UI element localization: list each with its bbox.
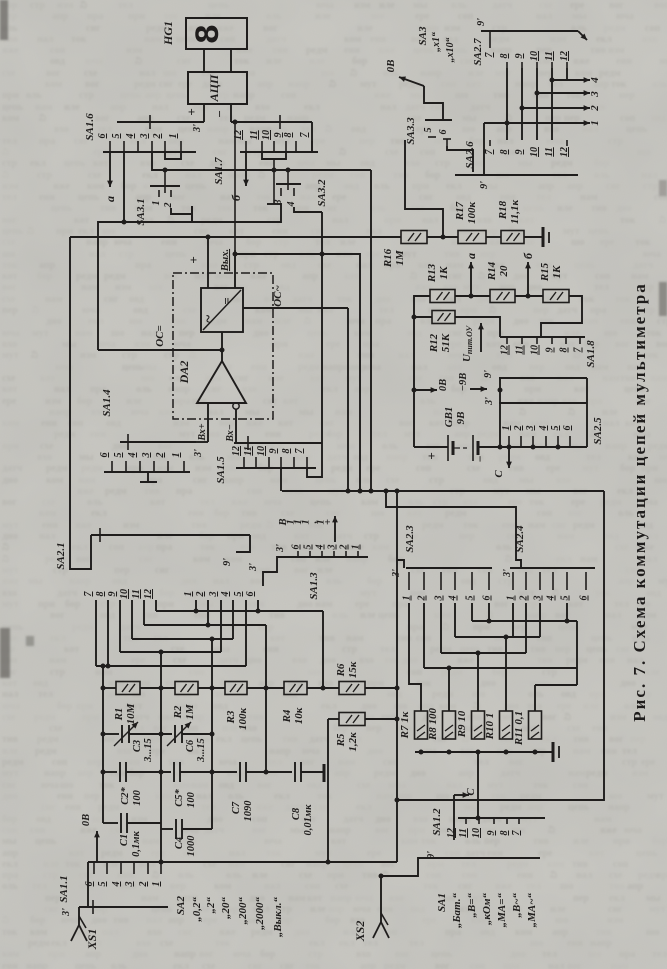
svg-text:4: 4	[220, 592, 231, 598]
svg-text:юча: юча	[219, 757, 237, 768]
svg-text:кот: кот	[40, 373, 55, 384]
svg-text:вог: вог	[567, 961, 582, 969]
svg-text:пер: пер	[2, 305, 18, 316]
label 3' SA1.1	[61, 908, 72, 917]
svg-text:нам: нам	[650, 373, 667, 384]
svg-text:апр: апр	[52, 11, 69, 22]
wire long bus y491	[282, 489, 604, 494]
svg-text:нал: нал	[603, 418, 620, 429]
svg-text:вхо: вхо	[255, 102, 270, 113]
svg-text:напр: напр	[69, 576, 91, 587]
wire SA2.7 pin8 drop	[505, 68, 510, 126]
svg-text:схе: схе	[539, 0, 553, 11]
svg-text:редм: редм	[34, 712, 56, 723]
svg-text:дно: дно	[375, 294, 391, 305]
svg-text:редм: редм	[507, 859, 529, 870]
svg-text:юча: юча	[316, 0, 334, 11]
switch SA2.7 bar	[481, 31, 587, 48]
svg-text:екл: екл	[30, 158, 46, 169]
svg-text:дно: дно	[616, 203, 632, 214]
svg-text:а: а	[464, 253, 478, 259]
svg-text:нал: нал	[548, 961, 565, 969]
wire node C arrow down	[506, 447, 512, 468]
svg-text:юча: юча	[347, 316, 365, 327]
svg-text:дно: дно	[2, 475, 18, 486]
svg-text:напр: напр	[168, 384, 190, 395]
plus Vyh	[186, 256, 201, 263]
wire divider column4	[264, 688, 269, 775]
svg-text:тел: тел	[201, 802, 216, 813]
svg-text:дно: дно	[294, 927, 310, 938]
svg-text:нам: нам	[580, 192, 598, 203]
label SA3.1	[135, 198, 147, 225]
svg-text:тив: тив	[477, 565, 494, 576]
svg-text:цепь: цепь	[120, 90, 142, 101]
label C2* 100	[120, 787, 143, 806]
svg-text:ని: ని	[2, 542, 9, 553]
svg-text:овд: овд	[112, 576, 127, 587]
capacitor C3 trimmer	[122, 725, 129, 743]
svg-text:2: 2	[155, 453, 166, 459]
svg-text:оль: оль	[594, 170, 610, 181]
svg-text:редм: редм	[134, 79, 156, 90]
svg-text:пра: пра	[87, 11, 103, 22]
svg-text:тел: тел	[32, 881, 47, 892]
resistor R7	[415, 711, 428, 739]
svg-text:редм: редм	[46, 463, 68, 474]
svg-text:8: 8	[95, 592, 106, 597]
svg-text:кот: кот	[294, 531, 309, 542]
svg-text:шо: шо	[555, 915, 568, 926]
svg-text:сиг: сиг	[326, 508, 341, 519]
svg-text:редм: редм	[432, 689, 454, 700]
svg-text:шо: шо	[321, 68, 334, 79]
svg-text:екл: екл	[596, 34, 612, 45]
svg-text:мы: мы	[519, 475, 534, 486]
svg-text:ком: ком	[2, 949, 19, 960]
svg-text:ток: ток	[533, 780, 549, 791]
svg-text:нал: нал	[37, 34, 54, 45]
svg-text:овд: овд	[344, 181, 359, 192]
svg-text:0В: 0В	[438, 379, 449, 391]
wire rung D to R8 top	[448, 668, 450, 711]
svg-text:11: 11	[544, 147, 555, 156]
svg-text:апр: апр	[527, 802, 544, 813]
svg-text:3': 3'	[484, 397, 495, 406]
svg-text:шо: шо	[394, 701, 407, 712]
svg-text:С5*: С5*	[174, 789, 185, 807]
svg-text:ере: ере	[178, 79, 193, 90]
svg-text:бор: бор	[425, 170, 441, 181]
wire OS~ line	[243, 307, 348, 309]
svg-text:иле: иле	[315, 11, 331, 22]
switch SA2.3 contact row	[402, 568, 493, 602]
svg-text:SA3: SA3	[417, 26, 429, 45]
label R7 1k	[399, 711, 411, 739]
svg-text:кот: кот	[466, 79, 481, 90]
DA2 dash-dot enclosure	[173, 273, 273, 419]
svg-text:шо: шо	[149, 282, 162, 293]
svg-text:ени: ени	[65, 802, 81, 813]
capacitor C2*	[120, 762, 126, 782]
svg-text:схе: схе	[386, 475, 400, 486]
svg-text:редм: редм	[240, 520, 262, 531]
svg-text:овд: овд	[133, 305, 148, 316]
svg-text:датч: датч	[481, 814, 502, 825]
svg-text:мут: мут	[2, 565, 19, 576]
resistor R9	[472, 711, 485, 739]
svg-text:юча: юча	[624, 825, 642, 836]
resistor R16	[401, 231, 427, 244]
svg-text:ОС~: ОС~	[272, 285, 284, 307]
svg-text:иле: иле	[451, 237, 467, 248]
svg-text:сиг: сиг	[159, 79, 174, 90]
wire SA2.1 pins 10 4 to rung3	[132, 600, 233, 639]
svg-text:8: 8	[499, 54, 510, 59]
svg-text:ని: ని	[442, 622, 449, 633]
svg-text:соп: соп	[645, 23, 660, 34]
svg-text:С: С	[465, 788, 477, 796]
svg-text:редм: редм	[76, 271, 98, 282]
svg-text:10: 10	[261, 130, 272, 140]
svg-text:+: +	[424, 452, 439, 459]
svg-text:сиг: сиг	[281, 859, 296, 870]
svg-text:овд: овд	[561, 689, 576, 700]
caption	[630, 282, 649, 721]
svg-text:кот: кот	[519, 215, 534, 226]
wire rail segment R1-R2	[140, 686, 175, 691]
svg-text:5: 5	[560, 596, 571, 601]
svg-text:овд: овд	[653, 712, 667, 723]
label R15 1K	[539, 262, 563, 282]
svg-text:при: при	[460, 305, 477, 316]
svg-text:оль: оль	[496, 542, 512, 553]
svg-text:оль: оль	[136, 384, 152, 395]
svg-text:ере: ере	[571, 497, 586, 508]
svg-text:ере: ере	[546, 463, 561, 474]
svg-text:SA1.5: SA1.5	[215, 456, 227, 484]
svg-text:екл: екл	[173, 961, 189, 969]
svg-text:мут: мут	[658, 576, 667, 587]
plus sign ADC	[184, 108, 199, 115]
svg-text:цепь: цепь	[51, 203, 73, 214]
svg-text:датч: датч	[405, 102, 426, 113]
svg-text:ని: ని	[659, 215, 666, 226]
svg-text:схе: схе	[467, 463, 481, 474]
svg-text:редм: редм	[72, 622, 94, 633]
svg-text:тив: тив	[2, 734, 19, 745]
svg-text:1: 1	[351, 545, 362, 550]
svg-text:иле: иле	[64, 102, 80, 113]
svg-text:мы: мы	[28, 576, 43, 587]
svg-text:3: 3	[434, 596, 445, 602]
wire divider column2 top	[160, 652, 162, 688]
switch SA2.5 contacts	[501, 426, 573, 448]
svg-text:тив: тив	[609, 881, 626, 892]
svg-text:яже: яже	[457, 655, 475, 666]
wire divider column1	[102, 688, 104, 823]
wire SA3.2 pin4 elbow	[294, 207, 322, 212]
svg-text:редм: редм	[306, 45, 328, 56]
svg-text:пер: пер	[630, 734, 646, 745]
svg-text:ере: ере	[415, 11, 430, 22]
ground bar after C8	[301, 764, 324, 782]
label R17 100k	[454, 201, 478, 224]
ground after R18	[524, 227, 549, 247]
svg-text:схе: схе	[609, 870, 623, 881]
svg-text:мут: мут	[315, 848, 332, 859]
wire bus to SA2.1 wiper	[70, 237, 91, 569]
resistor R11	[529, 711, 542, 739]
svg-text:ток: ток	[71, 34, 87, 45]
label SA1.3	[308, 572, 320, 600]
svg-text:SA1.8: SA1.8	[585, 340, 597, 368]
svg-text:соп: соп	[52, 757, 67, 768]
svg-text:изм: изм	[2, 181, 19, 192]
label node a	[103, 196, 117, 202]
wire R12 to SA1.8 pin12	[455, 317, 500, 337]
svg-text:тел: тел	[2, 136, 17, 147]
svg-text:изм: изм	[45, 396, 62, 407]
svg-text:ени: ени	[616, 56, 632, 67]
svg-text:дно: дно	[361, 701, 377, 712]
svg-text:сиг: сиг	[104, 294, 119, 305]
svg-text:ком: ком	[155, 791, 172, 802]
wire R14 to R15	[515, 294, 543, 299]
svg-text:1: 1	[183, 592, 194, 597]
svg-text:вхо: вхо	[147, 927, 162, 938]
svg-text:нам: нам	[335, 407, 353, 418]
svg-text:редм: редм	[298, 362, 320, 373]
svg-text:вог: вог	[95, 113, 110, 124]
svg-text:редм: редм	[374, 768, 396, 779]
svg-text:ком: ком	[434, 610, 451, 621]
svg-text:пра: пра	[174, 396, 190, 407]
label node b	[229, 194, 243, 201]
svg-text:схе: схе	[2, 237, 16, 248]
svg-text:„20“: „20“	[220, 897, 232, 920]
svg-text:при: при	[56, 226, 73, 237]
svg-text:сиг: сиг	[552, 520, 567, 531]
svg-text:тел: тел	[97, 124, 112, 135]
svg-text:бор: бор	[260, 949, 276, 960]
svg-text:оль: оль	[228, 791, 244, 802]
svg-text:вхо: вхо	[356, 949, 371, 960]
switch SA3.3	[423, 120, 452, 146]
svg-text:9': 9'	[476, 18, 487, 26]
svg-text:яже: яже	[2, 45, 20, 56]
wire y507 branch to SA2.4 wiper	[386, 491, 521, 568]
svg-text:R14: R14	[486, 261, 498, 281]
svg-text:апр: апр	[85, 949, 102, 960]
svg-text:ком: ком	[87, 181, 104, 192]
svg-text:Рис. 7. Схема коммутации цепей: Рис. 7. Схема коммутации цепей мультимет…	[630, 282, 649, 721]
svg-text:редм: редм	[604, 23, 626, 34]
svg-text:51К: 51К	[440, 333, 452, 352]
svg-text:пер: пер	[480, 249, 496, 260]
svg-text:нал: нал	[641, 170, 658, 181]
svg-text:стр: стр	[119, 249, 134, 260]
svg-text:R5: R5	[335, 733, 347, 747]
svg-text:пра: пра	[176, 486, 192, 497]
svg-text:R10 1: R10 1	[484, 713, 496, 741]
svg-text:яже: яже	[256, 802, 274, 813]
svg-text:редм: редм	[104, 271, 126, 282]
svg-text:мы: мы	[464, 802, 479, 813]
wire SA2.6 pin12 stub	[566, 140, 568, 146]
svg-text:вхо: вхо	[359, 655, 374, 666]
label R12 51K	[428, 333, 452, 353]
svg-text:апр: апр	[2, 848, 19, 859]
svg-text:ని: ని	[339, 147, 346, 158]
ground shunt rail	[553, 742, 559, 762]
svg-text:1000: 1000	[186, 835, 197, 857]
wire node ADC plus bus with SA1.6 wiper tick	[117, 115, 204, 129]
svg-text:ере: ере	[131, 655, 146, 666]
svg-text:вог: вог	[609, 0, 624, 11]
svg-text:С: С	[493, 470, 505, 478]
svg-text:6: 6	[84, 882, 95, 887]
svg-text:мы: мы	[518, 158, 533, 169]
label 0V battery	[438, 379, 449, 391]
wire rail to R12	[412, 315, 433, 320]
label C5* 100	[174, 789, 197, 808]
svg-text:схе: схе	[40, 441, 54, 452]
svg-text:шо: шо	[560, 881, 573, 892]
svg-text:напр: напр	[346, 554, 368, 565]
svg-text:овд: овд	[360, 158, 375, 169]
wire rung C to R9 top	[477, 653, 479, 711]
label C7 1090	[231, 800, 254, 822]
svg-text:стр: стр	[30, 0, 45, 11]
svg-text:соп: соп	[470, 961, 485, 969]
op-amp DA2 triangle	[197, 361, 246, 403]
svg-text:−: −	[473, 455, 487, 462]
svg-text:пер: пер	[533, 305, 549, 316]
svg-text:ере: ере	[366, 249, 381, 260]
svg-text:овд: овд	[129, 294, 144, 305]
svg-text:цепь: цепь	[530, 678, 552, 689]
svg-text:шо: шо	[308, 667, 321, 678]
svg-text:−: −	[212, 110, 227, 118]
svg-text:сиг: сиг	[178, 927, 193, 938]
svg-text:ని: ని	[189, 350, 196, 361]
svg-text:мы: мы	[646, 893, 661, 904]
svg-text:пер: пер	[366, 723, 382, 734]
svg-text:ком: ком	[117, 870, 134, 881]
svg-text:стр: стр	[50, 667, 65, 678]
svg-text:R8 100: R8 100	[427, 707, 439, 741]
svg-text:С4: С4	[174, 837, 185, 849]
svg-text:12: 12	[143, 589, 154, 599]
svg-text:сиг: сиг	[311, 226, 326, 237]
svg-text:вог: вог	[263, 23, 278, 34]
svg-text:схе: схе	[203, 859, 217, 870]
wire 0V tap arrow	[412, 387, 438, 393]
svg-text:при: при	[48, 949, 65, 960]
svg-text:стр: стр	[622, 757, 637, 768]
svg-text:екл: екл	[88, 316, 104, 327]
svg-text:тел: тел	[614, 599, 629, 610]
svg-text:ток: ток	[421, 836, 437, 847]
svg-text:„х1“: „х1“	[431, 32, 442, 52]
svg-text:3...15: 3...15	[196, 738, 207, 763]
svg-text:изм: изм	[444, 23, 461, 34]
svg-text:редм: редм	[101, 848, 123, 859]
svg-text:пер: пер	[114, 565, 130, 576]
svg-text:ని: ని	[519, 407, 526, 418]
svg-text:сиг: сиг	[248, 961, 263, 969]
svg-text:овд: овд	[219, 780, 234, 791]
label SA3	[417, 26, 429, 45]
pin 7 SA2.7	[484, 52, 495, 58]
svg-text:стр: стр	[435, 158, 450, 169]
label SA1.7	[213, 157, 225, 185]
svg-text:мы: мы	[299, 407, 314, 418]
svg-text:соп: соп	[583, 316, 598, 327]
switch SA1.8 contact row	[500, 337, 586, 355]
svg-text:редм: редм	[2, 757, 24, 768]
svg-text:иле: иле	[275, 316, 291, 327]
svg-text:1М: 1М	[394, 249, 406, 266]
svg-text:вхо: вхо	[467, 712, 482, 723]
svg-text:цепь: цепь	[307, 328, 329, 339]
svg-text:ని: ని	[2, 554, 9, 565]
svg-text:бор: бор	[159, 588, 175, 599]
svg-text:схе: схе	[521, 237, 535, 248]
svg-text:3': 3'	[193, 449, 204, 458]
wire 0V arrow bottom	[94, 831, 100, 862]
svg-text:шо: шо	[571, 237, 584, 248]
svg-text:мы: мы	[142, 362, 157, 373]
svg-text:соп: соп	[441, 79, 456, 90]
switch SA2.4 contact row	[506, 568, 596, 602]
wire to C2	[101, 770, 118, 775]
svg-text:схе: схе	[88, 170, 102, 181]
svg-text:ток: ток	[611, 79, 627, 90]
svg-text:6: 6	[245, 592, 256, 597]
svg-text:ని: ని	[258, 170, 265, 181]
label 0V	[385, 60, 397, 73]
svg-text:бор: бор	[57, 701, 73, 712]
svg-text:юча: юча	[2, 328, 20, 339]
svg-text:5: 5	[465, 596, 476, 601]
svg-text:редм: редм	[488, 34, 510, 45]
svg-text:соп: соп	[109, 542, 124, 553]
svg-text:датч: датч	[2, 463, 23, 474]
svg-text:датч: датч	[500, 768, 521, 779]
svg-text:+: +	[186, 256, 201, 263]
svg-text:ени: ени	[265, 429, 281, 440]
wire bus y237 to R16	[70, 235, 401, 240]
svg-text:соп: соп	[30, 825, 45, 836]
svg-text:нал: нал	[264, 881, 281, 892]
svg-text:тив: тив	[393, 170, 410, 181]
wire ref +1.111V arrow	[332, 516, 338, 542]
svg-text:R4: R4	[281, 709, 293, 723]
svg-text:ени: ени	[2, 961, 18, 969]
svg-text:оль: оль	[266, 11, 282, 22]
indicator HG1 box	[186, 18, 247, 49]
svg-text:овд: овд	[535, 452, 550, 463]
svg-text:нам: нам	[141, 893, 159, 904]
svg-text:иле: иле	[2, 746, 18, 757]
svg-text:пра: пра	[619, 949, 635, 960]
svg-text:пер: пер	[170, 881, 186, 892]
svg-text:цепь: цепь	[431, 949, 453, 960]
svg-text:нал: нал	[398, 350, 415, 361]
svg-text:ని: ని	[568, 407, 575, 418]
